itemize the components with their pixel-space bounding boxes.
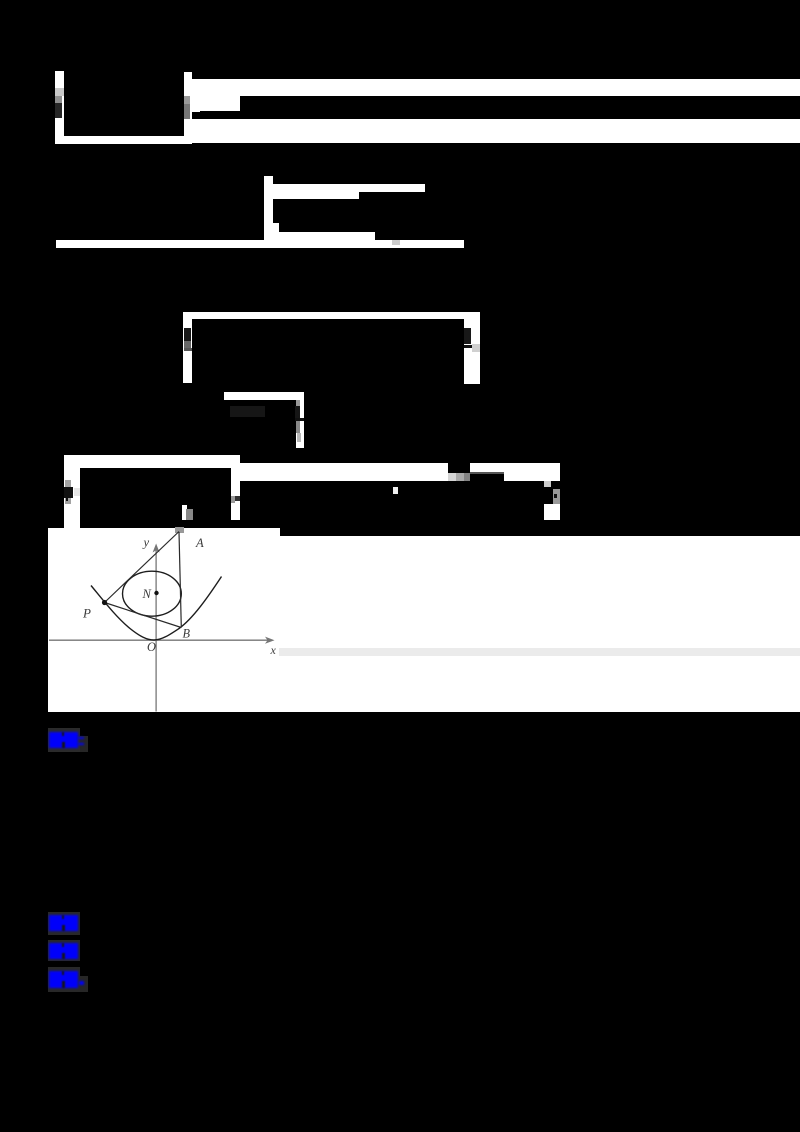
- svg-text:P: P: [82, 606, 91, 621]
- svg-text:B: B: [183, 627, 191, 641]
- svg-text:O: O: [147, 640, 156, 654]
- svg-text:y: y: [142, 536, 150, 550]
- svg-text:A: A: [195, 536, 204, 550]
- svg-text:N: N: [142, 587, 152, 601]
- svg-text:x: x: [270, 643, 277, 657]
